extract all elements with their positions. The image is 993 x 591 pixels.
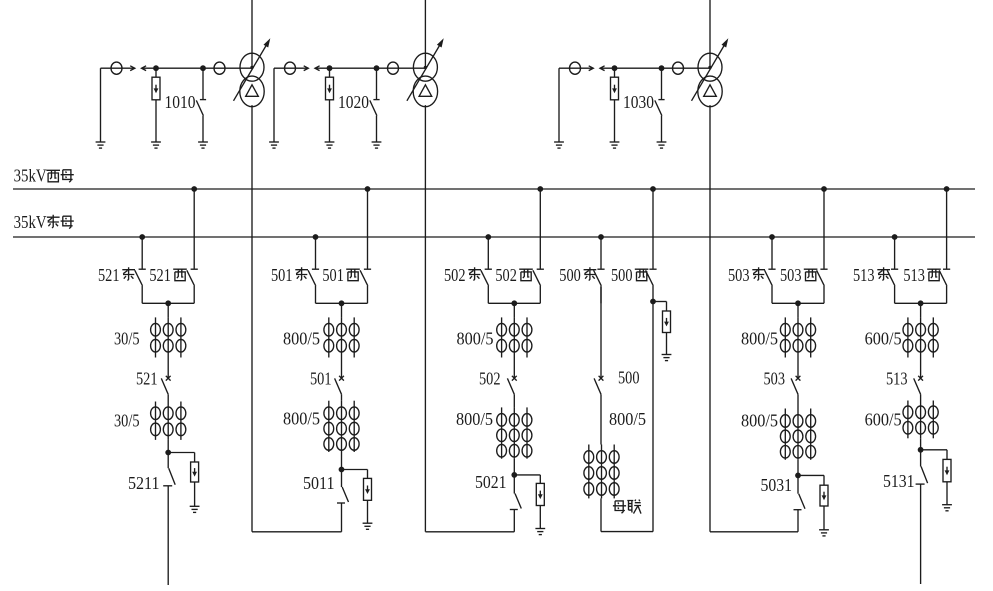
- svg-text:5031: 5031: [761, 475, 793, 495]
- disconnector 5211: [163, 453, 175, 486]
- wire 521 joint: [142, 302, 194, 304]
- transformer T3 LV winding: [698, 76, 722, 107]
- node 5021 tap: [511, 472, 517, 478]
- node 503 west bus tap: [821, 186, 827, 192]
- node 502 west bus tap: [537, 186, 543, 192]
- svg-text:501: 501: [310, 368, 332, 388]
- arrow left: [600, 66, 605, 71]
- ground: [535, 528, 545, 530]
- svg-text:35kV: 35kV: [14, 212, 47, 232]
- node 5131 tap: [918, 447, 924, 453]
- disconnector 513-W: [939, 189, 950, 303]
- surge arrester group 102: [329, 68, 331, 77]
- CT lower 5211 30/5: [151, 402, 186, 440]
- transformer T1 delta symbol: [246, 85, 259, 97]
- surge arrester group 101: [155, 68, 157, 77]
- transformer T1 tap arrow: [234, 44, 267, 100]
- fuse F103b: [673, 62, 684, 74]
- transformer T3 HV winding: [698, 53, 722, 81]
- arrow left: [142, 66, 147, 71]
- surge arrester 5031: [798, 475, 828, 529]
- PT group 1030: [554, 62, 710, 148]
- breaker 501: [335, 358, 344, 395]
- transformer T3: [692, 0, 729, 107]
- surge arrester 5211: [168, 453, 198, 507]
- node 503 east bus tap: [769, 234, 775, 240]
- earthing switch group 101: [202, 68, 204, 99]
- label 500-E: [559, 265, 596, 285]
- disconnector 503-W: [817, 189, 828, 303]
- svg-text:30/5: 30/5: [114, 328, 140, 348]
- wire 5131 drop: [920, 438, 922, 450]
- ground: [554, 141, 564, 143]
- wire PT branch group 101: [101, 67, 131, 69]
- svg-text:500: 500: [618, 368, 640, 388]
- transformer T1 LV winding: [240, 76, 264, 107]
- svg-text:513: 513: [886, 368, 908, 388]
- svg-text:600/5: 600/5: [865, 409, 902, 429]
- node 502 east bus tap: [485, 234, 491, 240]
- ground: [819, 529, 829, 531]
- breaker 502: [507, 358, 516, 395]
- node 501 joint: [339, 300, 345, 306]
- wire 5031 to transformer: [797, 510, 799, 532]
- wire 503 drop: [797, 303, 799, 317]
- earthing switch group 102: [376, 68, 378, 99]
- CT upper 513 600/5: [903, 317, 938, 357]
- svg-text:521: 521: [136, 368, 158, 388]
- svg-text:513: 513: [903, 265, 925, 285]
- surge arrester 5131: [921, 450, 951, 505]
- label 521-E: [98, 265, 135, 285]
- wire HV lead T2: [424, 0, 426, 67]
- svg-text:501: 501: [271, 265, 293, 285]
- wire 5021 to transformer: [513, 510, 515, 532]
- svg-text:502: 502: [444, 265, 466, 285]
- surge arrester 5021: [514, 475, 544, 529]
- transformer T2 delta symbol: [419, 85, 432, 97]
- node earthing switch tap 103: [659, 65, 665, 71]
- ground lead left group 102: [273, 68, 275, 142]
- svg-text:5211: 5211: [128, 473, 160, 493]
- ground: [942, 504, 952, 506]
- ground: [372, 141, 382, 143]
- svg-text:502: 502: [479, 368, 501, 388]
- node earthing switch tap 101: [200, 65, 206, 71]
- disconnector 5131: [916, 450, 928, 484]
- transformer T1 HV winding: [240, 53, 264, 81]
- svg-text:800/5: 800/5: [283, 409, 320, 429]
- CT lower 5031 800/5: [780, 409, 815, 460]
- CT 500 800/5: [584, 445, 619, 499]
- wire 502 joint: [488, 302, 540, 304]
- wire PT branch group 102: [274, 67, 304, 69]
- wire 501 drop: [341, 303, 343, 317]
- svg-text:5011: 5011: [303, 473, 335, 493]
- svg-text:1020: 1020: [338, 92, 369, 112]
- node earthing switch tap 102: [374, 65, 380, 71]
- ground: [96, 141, 106, 143]
- label 503-E: [728, 265, 765, 285]
- ground lead left group 103: [558, 68, 560, 142]
- svg-text:5131: 5131: [883, 471, 915, 491]
- wire HV lead T1: [251, 0, 253, 67]
- label 502-E: [444, 265, 481, 285]
- breaker 513: [914, 358, 923, 395]
- transformer T2 tap arrow: [407, 44, 440, 100]
- disconnector 5021: [510, 475, 522, 510]
- label 501-E: [271, 265, 308, 285]
- wire 513 joint: [895, 302, 947, 304]
- node 5211 tap: [165, 450, 171, 456]
- wire 5031 drop: [797, 460, 799, 476]
- label 501-W: [322, 265, 359, 285]
- disconnector 521-W: [187, 189, 198, 303]
- svg-text:800/5: 800/5: [457, 328, 494, 348]
- node 500 west bus tap: [650, 186, 656, 192]
- ground: [151, 141, 161, 143]
- disconnector 502-W: [533, 189, 544, 303]
- wire 500 mid: [600, 394, 602, 444]
- svg-text:800/5: 800/5: [741, 410, 778, 430]
- fuse F101b: [214, 62, 225, 74]
- earthing switch group 103: [661, 68, 663, 99]
- fuse F103a: [570, 62, 581, 74]
- CT upper 521 30/5: [151, 317, 186, 357]
- wire PT bus: [142, 67, 253, 69]
- node 521 west bus tap: [191, 186, 197, 192]
- label 35kV west bus: [14, 166, 74, 186]
- fuse F101a: [111, 62, 122, 74]
- surge arrester group 103: [614, 68, 616, 77]
- svg-text:800/5: 800/5: [741, 328, 778, 348]
- arrow right: [304, 67, 309, 69]
- disconnector 500-E: [594, 237, 605, 303]
- wire 5011 to transformer: [341, 503, 343, 532]
- transformer T2 LV winding: [413, 76, 437, 107]
- wire 500 bottom: [600, 498, 602, 531]
- ground lead left group 101: [100, 68, 102, 142]
- arrow right: [589, 67, 594, 69]
- transformer T2 HV winding: [413, 53, 437, 81]
- node 513 joint: [918, 300, 924, 306]
- CT upper 501 800/5: [324, 317, 359, 357]
- ground: [610, 141, 620, 143]
- svg-text:500: 500: [611, 265, 633, 285]
- node 502 joint: [511, 300, 517, 306]
- arrow left: [315, 66, 320, 71]
- node 503 joint: [795, 300, 801, 306]
- label 503-W: [780, 265, 817, 285]
- wire 501 joint: [316, 302, 368, 304]
- fuse F102b: [388, 62, 399, 74]
- svg-text:503: 503: [764, 368, 786, 388]
- breaker 521: [161, 358, 170, 395]
- wire PT bus: [315, 67, 425, 69]
- node arrester tap 102: [327, 65, 333, 71]
- node 5011 tap: [339, 467, 345, 473]
- label bus-tie: [613, 500, 641, 514]
- wire 513 drop: [920, 303, 922, 317]
- disconnector 502-E: [481, 237, 492, 303]
- disconnector 513-E: [887, 237, 898, 303]
- node 513 west bus tap: [944, 186, 950, 192]
- transformer T2: [407, 0, 444, 107]
- svg-text:503: 503: [780, 265, 802, 285]
- disconnector 5011: [337, 470, 349, 504]
- wire T1 LV lead: [251, 105, 253, 532]
- wire PT bus: [600, 67, 710, 69]
- svg-text:35kV: 35kV: [14, 166, 47, 186]
- wire 5011 drop: [341, 452, 343, 470]
- ground: [269, 141, 279, 143]
- svg-text:521: 521: [149, 265, 171, 285]
- disconnector 503-E: [765, 237, 776, 303]
- wire 5211 drop: [167, 440, 169, 453]
- wire 503 joint: [772, 302, 824, 304]
- CT lower 5021 800/5: [497, 407, 532, 458]
- wire T3 LV lead: [709, 105, 711, 532]
- node 500 east bus tap: [598, 234, 604, 240]
- node transformer T3 junction: [708, 66, 711, 69]
- breaker 500: [594, 358, 603, 395]
- svg-text:800/5: 800/5: [456, 409, 493, 429]
- ground: [657, 141, 667, 143]
- wire 521 drop: [167, 303, 169, 317]
- wire PT branch group 103: [559, 67, 589, 69]
- surge arrester 500: [653, 302, 671, 355]
- svg-text:503: 503: [728, 265, 750, 285]
- ground: [190, 505, 200, 507]
- node 521 east bus tap: [139, 234, 145, 240]
- transformer T1: [234, 0, 271, 107]
- wire 5211 feeder: [167, 486, 169, 585]
- surge arrester 5011: [342, 470, 372, 524]
- svg-text:800/5: 800/5: [283, 328, 320, 348]
- PT group 1020: [269, 62, 425, 148]
- transformer T3 delta symbol: [704, 85, 717, 97]
- node 521 joint: [165, 300, 171, 306]
- svg-text:502: 502: [495, 265, 517, 285]
- svg-text:500: 500: [559, 265, 581, 285]
- CT lower 5131 600/5: [903, 401, 938, 439]
- svg-text:5021: 5021: [475, 472, 507, 492]
- disconnector 5031: [794, 475, 806, 509]
- CT upper 502 800/5: [497, 317, 532, 357]
- disconnector 521-E: [135, 237, 146, 303]
- node arrester tap 101: [153, 65, 159, 71]
- wire T2 LV lead: [424, 105, 426, 532]
- wire 35kV west bus: [13, 188, 975, 190]
- breaker 503: [791, 358, 800, 395]
- svg-text:501: 501: [322, 265, 344, 285]
- node 501 west bus tap: [365, 186, 371, 192]
- disconnector 500-W: [646, 189, 657, 303]
- label 513-E: [853, 265, 890, 285]
- wire 500 east leg: [600, 287, 602, 358]
- node arrester tap 103: [612, 65, 618, 71]
- node transformer T2 junction: [424, 66, 427, 69]
- svg-text:30/5: 30/5: [114, 410, 140, 430]
- wire HV lead T3: [709, 0, 711, 67]
- ground: [662, 354, 672, 356]
- label 500-W: [611, 265, 648, 285]
- disconnector 501-W: [360, 189, 371, 303]
- label 521-W: [149, 265, 186, 285]
- svg-text:1010: 1010: [165, 92, 196, 112]
- ground: [198, 141, 208, 143]
- wire 500 west leg: [652, 302, 654, 532]
- arrow right: [130, 67, 135, 69]
- node 5031 tap: [795, 473, 801, 479]
- label 35kV east bus: [14, 212, 74, 232]
- wire 35kV east bus: [13, 236, 975, 238]
- wire 5131 feeder: [920, 484, 922, 584]
- fuse F102a: [285, 62, 296, 74]
- CT lower 5011 800/5: [324, 401, 359, 452]
- PT group 1010: [96, 62, 252, 148]
- CT upper 503 800/5: [780, 317, 815, 357]
- wire 502 drop: [513, 303, 515, 317]
- svg-text:513: 513: [853, 265, 875, 285]
- label 502-W: [495, 265, 532, 285]
- transformer T3 tap arrow: [692, 44, 725, 100]
- label 513-W: [903, 265, 940, 285]
- ground: [363, 522, 373, 524]
- svg-text:600/5: 600/5: [865, 328, 902, 348]
- svg-text:800/5: 800/5: [609, 409, 646, 429]
- ground: [325, 141, 335, 143]
- node 501 east bus tap: [313, 234, 319, 240]
- node 513 east bus tap: [892, 234, 898, 240]
- node 500 arrester tap: [650, 299, 656, 305]
- disconnector 501-E: [308, 237, 319, 303]
- svg-text:521: 521: [98, 265, 120, 285]
- wire 5021 drop: [513, 459, 515, 475]
- svg-text:1030: 1030: [623, 92, 654, 112]
- node transformer T1 junction: [250, 66, 253, 69]
